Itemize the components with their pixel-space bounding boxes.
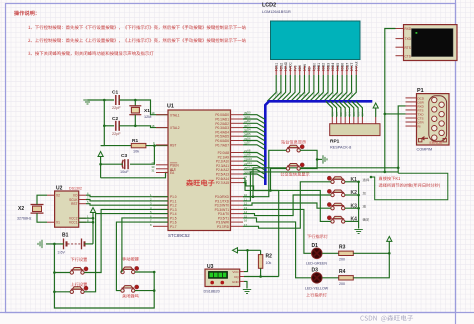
svg-text:18: 18 — [151, 124, 155, 128]
lcd wire DB5 — [328, 75, 337, 101]
crystal X1 top plate — [129, 105, 141, 107]
svg-text:P0.7/AD7: P0.7/AD7 — [215, 143, 229, 147]
power arrow RP1 — [373, 103, 378, 108]
wire u3 dq — [244, 276, 279, 278]
lcd wire DB3 — [319, 75, 328, 101]
rp1 pin 4 stub — [344, 117, 346, 124]
wire btn3 right — [135, 271, 154, 273]
lcd wire DB1 — [310, 75, 319, 101]
svg-text:10k: 10k — [133, 150, 139, 154]
annotation text line1 — [379, 176, 400, 180]
lcd pin DB3 tick — [327, 70, 329, 72]
wire K1 right — [345, 181, 359, 183]
compim connector circle L3 — [432, 116, 437, 121]
svg-text:D7: D7 — [247, 141, 251, 145]
svg-text:VCC1: VCC1 — [69, 221, 78, 225]
led D3 body — [312, 273, 323, 284]
wire vcc rail U3 — [238, 249, 261, 251]
svg-text:R3: R3 — [339, 245, 346, 251]
lcd pin V0 stub — [294, 66, 296, 75]
pin P2.4 stub — [231, 169, 244, 171]
pin P2.7 stub — [231, 182, 244, 184]
wire row K4 from P2.6 — [243, 178, 331, 221]
svg-text:3.6V: 3.6V — [58, 251, 66, 255]
svg-text:P3.7/RD: P3.7/RD — [217, 225, 230, 229]
note line 2 — [28, 38, 246, 42]
svg-text:R1: R1 — [132, 138, 138, 144]
lcd LCD2 screen — [271, 21, 361, 60]
compim connector circle L4 — [432, 126, 437, 131]
junction u3 vcc — [246, 249, 249, 252]
lcd wire CS2 — [272, 75, 281, 101]
pin P2.3 stub — [231, 164, 244, 166]
capacitor C1 — [118, 95, 120, 105]
wire r2 bottom — [260, 268, 262, 276]
wire gnd net riser — [103, 100, 105, 126]
compim connector circle R3 — [439, 121, 444, 126]
wire rxd row to mcu — [243, 168, 398, 197]
svg-text:XTAL1: XTAL1 — [170, 113, 180, 117]
svg-text:CTS: CTS — [405, 54, 411, 58]
svg-text:GND: GND — [232, 280, 240, 284]
wire D1 to R3 — [322, 252, 339, 254]
svg-text:22pF: 22pF — [112, 106, 121, 110]
compim connector circle L5 — [432, 135, 437, 140]
pin P1.6 stub — [153, 221, 168, 223]
lcd pin -Vout stub — [355, 66, 357, 75]
wire P0.5 to bus — [243, 136, 265, 141]
svg-text:U1: U1 — [167, 104, 174, 110]
resistor R4 — [339, 276, 354, 280]
junction btn1 common — [53, 271, 56, 274]
lcd wire DB6 — [333, 75, 342, 101]
pin P3.2 stub — [231, 204, 244, 206]
lcd pin E tick — [308, 70, 310, 72]
svg-text:LED-YELLOW: LED-YELLOW — [305, 287, 329, 291]
wire button1 left — [243, 150, 286, 196]
junction terminal corner — [384, 171, 387, 174]
svg-text:C1: C1 — [112, 90, 118, 96]
capacitor C3 — [124, 159, 126, 169]
wire to btn1 left — [54, 272, 70, 274]
lcd pin DB1 stub — [318, 66, 320, 75]
svg-text:C3: C3 — [121, 153, 127, 159]
rp1 pin 8 stub — [361, 117, 363, 124]
wire bus to RP1 pin 8 — [356, 101, 363, 117]
sheet border right extension — [455, 0, 457, 324]
button K2 — [327, 190, 345, 197]
u3 pin GND stub — [240, 280, 244, 282]
sensor U3 red dot 1 — [210, 281, 214, 285]
svg-text:12M: 12M — [144, 115, 151, 119]
junction VCC C3 — [99, 163, 102, 166]
wire P0.3 to bus — [243, 128, 265, 133]
compim corner square 1 — [419, 139, 422, 142]
svg-text:31: 31 — [151, 169, 155, 173]
lcd pin CS2 stub — [280, 66, 282, 75]
wire btn4 left riser — [116, 222, 168, 291]
pin P2.5 stub — [231, 173, 244, 175]
label 上行设置 — [71, 282, 87, 286]
junction battery left — [53, 243, 56, 246]
wire bus to RP1 pin 3 — [334, 101, 341, 117]
wire P0.4 to bus — [243, 132, 265, 137]
junction terminal txd — [384, 113, 387, 116]
button 站台信息显示 — [286, 145, 304, 152]
compim pin CTS stub — [406, 117, 417, 119]
label 关闭蜂鸣 — [122, 294, 138, 298]
wire VCC2 — [79, 217, 93, 219]
junction K1 common — [357, 181, 360, 184]
wire P2.3 to bus — [243, 165, 265, 170]
lcd pin DB5 stub — [336, 66, 338, 75]
svg-text:RESPACK-8: RESPACK-8 — [330, 146, 351, 150]
button K1 — [327, 176, 345, 183]
lcd pin VCC tick — [289, 70, 291, 72]
wire row K3 from P3.2 — [243, 203, 331, 208]
pin P0.0 stub — [231, 114, 244, 116]
pin P1.7 stub — [153, 225, 168, 227]
sheet border bottom extension — [0, 312, 474, 314]
watermark 森旺电子 — [186, 179, 214, 186]
svg-text:C2: C2 — [112, 116, 118, 122]
svg-text:X1: X1 — [144, 108, 150, 114]
terminal pin CTS stub — [396, 55, 404, 57]
svg-text:200: 200 — [339, 282, 345, 286]
svg-text:LCD2: LCD2 — [262, 3, 276, 9]
u3 pin DQ stub — [240, 276, 244, 278]
pin P2.2 stub — [231, 160, 244, 162]
lcd pin DB4 stub — [332, 66, 334, 75]
wire R4 right — [353, 241, 389, 277]
pin P0.6 stub — [231, 140, 244, 142]
u3 pin VCC stub — [240, 271, 244, 273]
svg-text:DS18B20: DS18B20 — [204, 290, 220, 294]
u2 pin I/O stub — [79, 194, 86, 196]
wire bus to RP1 pin 2 — [330, 101, 337, 117]
svg-text:32768Hz: 32768Hz — [17, 217, 32, 221]
ground middle buttons — [323, 155, 327, 163]
svg-text:RST: RST — [170, 144, 176, 148]
svg-text:DS1302: DS1302 — [69, 187, 82, 191]
lcd wire GND — [277, 75, 286, 101]
note 确定 — [363, 218, 370, 221]
svg-text:RST: RST — [71, 202, 77, 206]
wire compim TXD — [385, 113, 406, 115]
compim connector circle L1 — [432, 97, 437, 102]
junction btn3 right — [153, 271, 156, 274]
pin P0.7 stub — [231, 144, 244, 146]
rp1 pin 6 stub — [353, 117, 355, 124]
bus LCD data — [265, 101, 372, 185]
lcd pin DB3 stub — [327, 66, 329, 75]
compim pin RI stub — [406, 125, 417, 127]
respack RP1 body — [330, 124, 380, 136]
wire X1 bottom — [134, 115, 136, 126]
compim corner square 2 — [443, 139, 446, 142]
lcd wire DB7 — [338, 75, 347, 101]
crystal X2 top plate — [31, 204, 44, 206]
pin RST stub — [156, 144, 168, 146]
lcd pin DB0 stub — [313, 66, 315, 75]
label 上行指示灯 — [306, 293, 327, 297]
compim pin DTR stub — [406, 121, 417, 123]
junction R3 vcc — [388, 252, 391, 255]
svg-text:LGM12641BS1R: LGM12641BS1R — [262, 10, 291, 14]
wire common left riser — [54, 244, 154, 308]
lcd pin CS1 tick — [275, 70, 277, 72]
button 下行设置 — [70, 267, 88, 274]
wire C1 to XTAL1 — [119, 100, 168, 115]
junction C2 gnd — [103, 125, 106, 128]
svg-text:B1: B1 — [62, 233, 69, 239]
junction vcc1 — [92, 221, 95, 224]
lcd wire RST — [343, 75, 352, 101]
wire K4 right — [345, 220, 359, 222]
wire K2 right — [345, 194, 359, 196]
wire ground to C1 — [88, 99, 115, 101]
wire r2 top — [260, 250, 262, 254]
svg-text:DQ: DQ — [234, 275, 239, 279]
pin P3.6 stub — [231, 221, 244, 223]
pin P3.7 stub — [231, 225, 244, 227]
rp1 pin 3 stub — [340, 117, 342, 124]
sensor U3 digits — [210, 273, 214, 277]
svg-text:X2: X2 — [56, 194, 60, 198]
mcu U1 body STC89C52 — [168, 110, 231, 231]
wire P2.5 to bus — [243, 174, 265, 179]
wire P2.1 to bus — [243, 157, 265, 162]
lcd pin D/I tick — [299, 70, 301, 72]
svg-text:XTAL2: XTAL2 — [170, 126, 180, 130]
note 选择 — [363, 178, 370, 181]
wire P0.7 to bus — [243, 145, 265, 150]
pin P2.0 stub — [231, 152, 244, 154]
pin label PSEN overline — [170, 162, 177, 164]
svg-text:LED-GREEN: LED-GREEN — [306, 262, 327, 266]
wire ground to C2 — [104, 125, 114, 127]
power arrow near C3 — [98, 152, 103, 157]
wire u3 gnd — [244, 281, 247, 288]
wire row D1 from P3.3 — [243, 209, 312, 253]
u2 pin VCC2 stub — [79, 217, 86, 219]
lcd pin RW tick — [303, 70, 305, 72]
wire X2 top to U2 — [37, 195, 47, 204]
pin P0.4 stub — [231, 131, 244, 133]
wire X2 bottom to U2 — [37, 213, 47, 222]
lcd pin RST tick — [350, 70, 352, 72]
junction X1 bottom — [134, 125, 137, 128]
junction dq row — [269, 189, 272, 192]
wire U2 SCLK to P1.1 — [86, 200, 168, 201]
pin P3.3 stub — [231, 208, 244, 210]
junction vcc2 — [92, 217, 95, 220]
power arrow U2 — [90, 208, 95, 213]
virtual terminal body — [404, 25, 458, 61]
wire VCC to EA — [101, 173, 168, 178]
compim pin DSR stub — [406, 101, 417, 103]
junction RST node — [153, 144, 156, 147]
wire U2 RST to P1.2 — [86, 204, 168, 206]
pin P3.0 stub — [231, 196, 244, 198]
wire u3 vcc down — [244, 250, 248, 271]
battery B1 symbol — [64, 239, 85, 250]
power arrow LEDs — [387, 236, 392, 241]
lcd pin DB5 tick — [336, 70, 338, 72]
wire U2 IO to P1.0 — [86, 195, 168, 197]
lcd pin DB1 tick — [317, 70, 319, 72]
lcd pin DB2 tick — [322, 70, 324, 72]
capacitor C3 curved plate — [122, 160, 123, 169]
compim connector circle R4 — [439, 130, 444, 135]
capacitor C2 — [118, 121, 120, 131]
sensor U3 body DS18B20 — [205, 269, 240, 286]
csdn watermark — [360, 315, 413, 322]
wire btn4 right — [135, 290, 154, 292]
capacitor C1 — [115, 95, 117, 105]
crystal X1 body — [131, 107, 139, 113]
ground under U3 — [243, 290, 251, 294]
wire R1 left riser — [101, 126, 105, 146]
u2 pin X2 stub — [47, 194, 55, 196]
wire buttons right common — [300, 150, 317, 168]
junction btn2 common — [53, 291, 56, 294]
u2 pin X1 stub — [47, 221, 55, 223]
svg-text:RP1: RP1 — [330, 139, 340, 145]
lcd pin DB0 tick — [313, 70, 315, 72]
lcd pin DB6 stub — [341, 66, 343, 75]
lcd pin D/I stub — [299, 66, 301, 75]
rp1 common pin stub — [375, 117, 377, 124]
svg-text:22pF: 22pF — [112, 132, 121, 136]
pin P3.1 stub — [231, 200, 244, 202]
capacitor C3 — [127, 159, 129, 169]
pin P1.3 stub — [153, 208, 168, 210]
junction r2 dq — [259, 275, 262, 278]
button 关闭蜂鸣 — [121, 285, 139, 292]
lcd wire CS1 — [267, 75, 276, 101]
svg-text:R2: R2 — [266, 254, 273, 260]
wire D3 to R4 — [322, 277, 339, 279]
svg-text:COMPIM: COMPIM — [417, 148, 433, 152]
junction rxd row — [397, 167, 400, 170]
rp1 pin 1 stub — [331, 117, 333, 124]
wire row K1 from P3.7 — [243, 182, 331, 228]
led D1 body — [312, 248, 323, 259]
wire row K2 from P3.4 — [243, 195, 331, 216]
sensor U3 display — [209, 272, 228, 279]
lcd pin V0 tick — [294, 70, 296, 72]
compim pin TXD stub — [406, 113, 417, 115]
virtual terminal screen — [412, 29, 454, 57]
wire bus to RP1 pin 7 — [352, 101, 359, 117]
wire P0.6 to bus — [243, 141, 265, 146]
lcd pin DB4 tick — [332, 70, 334, 72]
resistor R1 — [131, 143, 146, 147]
svg-text:TXD: TXD — [405, 37, 412, 41]
lcd pin VCC stub — [289, 66, 291, 75]
note title 操作说明 — [14, 11, 36, 16]
wire P2.2 to bus — [243, 161, 265, 166]
ground near C1 — [83, 100, 91, 104]
lcd wire DB0 — [305, 75, 314, 101]
pin P0.1 stub — [231, 118, 244, 120]
junction K2 common — [357, 194, 360, 197]
sensor U3 red dot 2 — [221, 281, 225, 285]
lcd pin GND tick — [284, 70, 286, 72]
compim pin1 arrow — [422, 137, 428, 140]
compim connector circle L2 — [432, 107, 437, 112]
wire P0.0 to bus — [243, 115, 265, 120]
wire to btn2 left — [54, 291, 70, 293]
wire dq riser — [278, 191, 280, 277]
pin P0.2 stub — [231, 122, 244, 124]
label 手动按键 — [122, 257, 138, 261]
label 公交车信息显示 — [281, 172, 310, 176]
svg-text:10k: 10k — [266, 261, 272, 265]
compim pin DCD stub — [406, 97, 417, 99]
wire VCC1 — [79, 221, 93, 223]
rp1 pin 7 stub — [357, 117, 359, 124]
wire R1 to RST — [146, 144, 168, 147]
annotation text line2 — [379, 183, 440, 187]
terminal cursor pixel — [416, 32, 418, 34]
junction gnd net — [103, 99, 106, 102]
wire P0.1 to bus — [243, 119, 265, 124]
ground left of B1 — [38, 240, 42, 248]
pin ALE stub — [156, 168, 168, 170]
pin P1.2 stub — [153, 204, 168, 206]
pin P3.4 stub — [231, 213, 244, 215]
svg-text:RI: RI — [418, 125, 421, 129]
lcd pin CS1 stub — [275, 66, 277, 75]
lcd pin DB2 stub — [322, 66, 324, 75]
note 减 — [363, 205, 366, 208]
lcd wire DB2 — [314, 75, 323, 101]
lcd wire DB4 — [324, 75, 333, 101]
wire to R1 — [101, 145, 132, 147]
annotation box outline — [372, 173, 448, 200]
svg-text:P1.7: P1.7 — [170, 225, 177, 229]
lcd pin RW stub — [303, 66, 305, 75]
wire terminal RXD down — [385, 29, 396, 172]
wire btn2 right riser — [84, 214, 168, 292]
button 上行设置 — [70, 286, 88, 293]
wire btn1 right riser — [84, 209, 168, 272]
svg-text:R4: R4 — [339, 269, 346, 275]
wire terminal row to mcu — [243, 172, 398, 201]
wire R3 right — [353, 252, 389, 254]
compim connector shape — [429, 96, 447, 142]
pin P1.1 stub — [153, 200, 168, 202]
lcd wire D/I — [291, 75, 300, 101]
resistor R3 — [339, 251, 354, 255]
compim P1 body — [417, 94, 450, 145]
lcd wire VCC — [281, 75, 290, 101]
wire bus to RP1 pin 6 — [347, 101, 354, 117]
rtc U2 body DS1302 — [55, 191, 79, 227]
pin label EA overline — [170, 170, 174, 172]
wire C3 to VCC — [101, 163, 123, 165]
button K4 — [327, 216, 345, 223]
wire to middle gnd — [317, 158, 322, 160]
svg-text:ERROR: ERROR — [430, 141, 443, 145]
pin P1.4 stub — [153, 213, 168, 215]
note 加 — [363, 192, 366, 195]
wire P2.4 to bus — [243, 170, 265, 175]
crystal X2 body — [33, 206, 42, 211]
wire row DQ from P2.7 — [243, 183, 279, 191]
